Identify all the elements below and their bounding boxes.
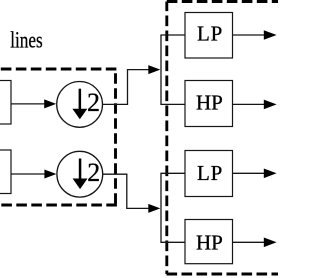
svg-text:HP: HP [196, 231, 223, 255]
filter box HP2 [185, 220, 233, 264]
wire LP1 out [233, 34, 266, 36]
input block row 2 (cropped) [0, 150, 11, 194]
wire branch1 to HP1 [160, 103, 185, 105]
synthesis stage dashed box bottom edge [167, 273, 279, 276]
filter box LP2 [185, 151, 233, 197]
downsampler circle 1 [57, 82, 103, 128]
branch node 2 vertical wire [160, 173, 162, 242]
branch node 1 vertical wire [160, 35, 162, 104]
input block row 1 (cropped) [0, 81, 11, 125]
filter box HP1 [185, 81, 233, 127]
wire branch1 to LP1 [160, 34, 185, 36]
downsampler circle 2 [57, 151, 103, 197]
filter box LP1 [185, 13, 233, 59]
svg-text:LP: LP [197, 22, 222, 46]
arrowhead LP1 output [264, 30, 277, 40]
wire LP2 out [233, 172, 266, 174]
wire block1 to downsampler 1 [11, 103, 45, 105]
arrowhead LP2 output [264, 169, 277, 179]
wire block2 to downsampler 2 [11, 173, 45, 175]
synthesis stage dashed box top edge [167, 0, 278, 3]
svg-text:2: 2 [87, 158, 100, 187]
arrowhead into downsampler 2 [44, 170, 56, 179]
analysis stage dashed box top edge [0, 68, 117, 71]
synthesis stage dashed box left edge [165, 2, 168, 275]
arrowhead into branch node 2 [148, 204, 160, 213]
svg-text:HP: HP [196, 91, 223, 115]
arrowhead HP1 output [264, 100, 277, 110]
arrowhead into branch node 1 [148, 65, 160, 74]
svg-text:lines: lines [10, 28, 43, 53]
wire downsampler1 up to branch arrow [103, 70, 149, 105]
wire HP2 out [233, 241, 266, 243]
arrowhead HP2 output [264, 238, 277, 248]
wire branch2 to LP2 [160, 172, 185, 174]
wire branch2 to HP2 [160, 241, 185, 243]
svg-text:LP: LP [197, 161, 222, 185]
downsampler 1 down-arrow [72, 89, 87, 120]
analysis stage dashed box right edge [114, 69, 117, 206]
wire downsampler2 down to branch arrow [103, 174, 149, 208]
analysis stage dashed box bottom edge [0, 204, 117, 207]
downsampler 2 down-arrow [73, 159, 88, 190]
wire HP1 out [233, 103, 266, 105]
arrowhead into downsampler 1 [44, 99, 56, 108]
svg-text:2: 2 [87, 88, 100, 117]
